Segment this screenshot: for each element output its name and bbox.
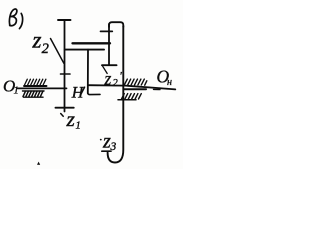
right bearing upper hatching (124, 79, 147, 85)
figure label в) (9, 9, 24, 29)
ink speck bottom left (37, 162, 40, 165)
internal mesh arc (top of ring) (109, 22, 123, 27)
label z2' (104, 69, 123, 89)
right bearing base line (118, 99, 136, 101)
svg-text:H: H (71, 85, 85, 102)
leader line of label z2 (51, 39, 64, 64)
label O1 (3, 77, 19, 97)
left bearing lower base line (24, 96, 44, 98)
small tick right of bearing (154, 88, 161, 90)
input shaft O1 line (18, 87, 67, 89)
left bearing upper hatching (25, 79, 46, 85)
svg-text:2: 2 (113, 78, 119, 89)
axle cross mark on z2' (101, 30, 113, 32)
leader tick of label z1 (61, 114, 64, 117)
leader dot of label z3 (100, 139, 102, 141)
label z2 (32, 28, 49, 58)
gear line z2-z1 block (central vertical) (64, 20, 66, 112)
leader line of label z2' (102, 66, 107, 74)
top cap of gear z2 (58, 19, 71, 21)
label z1 (66, 107, 81, 132)
carrier H stem (87, 50, 89, 94)
cap of gear z1 (mid tick) (61, 73, 71, 75)
left bearing lower block line (23, 90, 45, 92)
label OH (157, 67, 173, 89)
label z3 (102, 131, 117, 154)
svg-text:2: 2 (42, 41, 49, 57)
svg-text:1: 1 (76, 121, 81, 132)
satellite axle upper line (73, 42, 111, 44)
svg-text:′: ′ (119, 69, 122, 83)
svg-text:н: н (167, 77, 172, 88)
svg-text:z: z (32, 28, 42, 53)
right bearing under-shaft line (124, 88, 146, 90)
label H (71, 85, 85, 102)
leader line of label H (80, 87, 84, 95)
left bearing upper block line (24, 85, 47, 87)
svg-text:3: 3 (110, 141, 117, 153)
bottom cap of gear z2' (102, 64, 117, 66)
satellite axle lower line (65, 49, 104, 51)
bottom cap of gear z1 (56, 107, 74, 109)
carrier H foot (88, 93, 100, 94)
right bearing lower hatching (122, 94, 142, 99)
svg-text:z: z (66, 107, 76, 131)
end cap of z3 hook (102, 150, 111, 152)
gear z2' line (108, 24, 110, 64)
svg-text:1: 1 (14, 86, 19, 97)
ring gear z3 line with bottom hook (108, 26, 124, 163)
svg-text:z: z (104, 69, 112, 89)
left bearing lower hatching (23, 91, 43, 96)
carrier arm / output shaft OH line (88, 85, 175, 89)
